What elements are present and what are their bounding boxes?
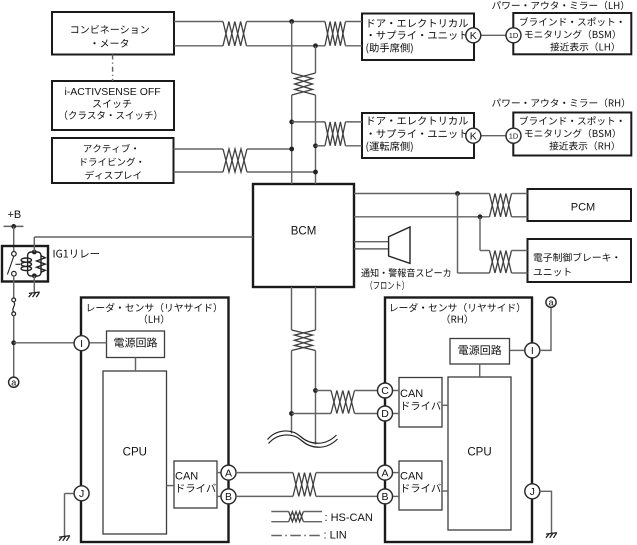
ground radar RH: [546, 533, 557, 538]
label CAN driver RH2: [403, 484, 441, 493]
wire bus left below BCM: [291, 287, 293, 330]
wire bus right below BCM: [315, 287, 317, 330]
node a right: [546, 297, 556, 307]
label power outer mirror RH: [492, 98, 624, 107]
power circuit box LH: [107, 331, 165, 358]
svg-text:D: D: [381, 408, 389, 420]
connector 1D BSM RH: [506, 128, 521, 143]
CAN driver box RH lower: [399, 461, 442, 510]
twisted pair combi meter: [223, 22, 247, 46]
wire pair top to junction and door1: [247, 21, 326, 23]
label brake unit line2: [534, 268, 571, 276]
wire J LH left: [65, 493, 74, 495]
wire speaker bottom: [354, 248, 389, 250]
wire A pair right: [316, 472, 378, 474]
label combination meter line2: [93, 39, 128, 48]
junction PCM bottom branch: [478, 214, 483, 219]
wire relay coil to BCM vertical: [33, 237, 35, 252]
wire CAN driver to B LH: [217, 495, 221, 497]
unit: radar sensor rear RH: [385, 298, 532, 543]
label door unit1 line2: [370, 30, 467, 39]
label CAN driver LH: [178, 484, 216, 493]
wire B to CAN driver RH: [392, 495, 399, 497]
connector K door unit1: [466, 28, 481, 43]
wire J RH to ground: [539, 491, 551, 533]
svg-text:CPU: CPU: [123, 447, 147, 459]
label power circuit RH: [459, 345, 502, 355]
wire bus left to break: [291, 351, 293, 434]
connector A RH: [378, 465, 393, 480]
label active driving display line3: [85, 171, 140, 180]
twisted pair to door unit1: [325, 22, 346, 46]
label door unit2 line2: [370, 129, 467, 138]
junction C branch: [313, 388, 318, 393]
wire K to 1D (RH): [481, 135, 507, 137]
label active driving display line1: [84, 144, 136, 153]
label i-ACTIVSENSE line3: [65, 110, 156, 119]
svg-text:CPU: CPU: [467, 447, 491, 459]
svg-text:a: a: [11, 377, 16, 387]
wire +B down to relay: [13, 226, 15, 251]
connector J LH: [74, 486, 89, 501]
junction door2 bottom: [313, 143, 318, 148]
unit: BSM indicator RH: [513, 113, 631, 156]
connector B LH: [221, 489, 236, 504]
unit: i-ACTIVSENSE OFF switch: [52, 81, 174, 130]
wire to C lead: [355, 390, 378, 392]
wire vertical bus right upper: [315, 46, 317, 73]
wire J LH down: [64, 494, 66, 537]
wire to door2 top lead: [346, 121, 363, 123]
wire brake bottom lead: [512, 272, 528, 274]
svg-text:PCM: PCM: [571, 201, 595, 213]
wire power circuit to CPU LH: [135, 358, 137, 372]
twisted pair vertical lower: [292, 330, 316, 351]
ground radar LH: [59, 536, 70, 541]
connector J RH: [525, 484, 540, 499]
relay switch link dash: [16, 263, 21, 265]
wire I to power circuit: [88, 342, 106, 344]
wire relay coil to ground: [33, 276, 35, 293]
label radar LH line1: [88, 303, 216, 312]
wire down to node a: [13, 316, 15, 378]
wire B pair right: [316, 495, 378, 497]
wire brake bottom lead-in: [458, 272, 490, 274]
CAN driver box RH upper: [399, 378, 442, 428]
twisted pair brake unit: [490, 251, 512, 274]
wire display top to junction: [247, 148, 292, 150]
wire +B bus bar: [4, 225, 24, 227]
wire vertical bus left to BCM: [291, 95, 293, 184]
label BSM RH line3: [549, 141, 613, 150]
junction PCM top branch: [455, 191, 460, 196]
label door unit1 line3: [366, 43, 412, 54]
wire pair bottom to junction and door1: [247, 45, 326, 47]
wire to door2 bottom lead: [346, 145, 363, 147]
label BSM RH line2: [525, 129, 615, 138]
connector I LH: [74, 336, 89, 351]
relay coil outline: [28, 252, 41, 276]
unit: electric brake control unit: [528, 239, 632, 282]
junction IG feed: [11, 340, 16, 345]
junction relay coil top: [32, 250, 37, 255]
label BSM RH line1: [520, 116, 622, 125]
wire B pair left: [236, 495, 293, 497]
label BSM LH line1: [520, 17, 622, 26]
wire combi pair top lead: [174, 21, 223, 23]
svg-text:A: A: [225, 467, 232, 479]
twisted pair PCM: [490, 194, 512, 217]
node a left: [9, 377, 19, 387]
svg-text:a: a: [548, 297, 553, 307]
wire to door1 bottom: [346, 45, 363, 47]
ground relay: [29, 292, 40, 297]
label door unit2 line1: [369, 116, 468, 125]
svg-text:C: C: [381, 385, 389, 397]
relay resistor zigzag: [37, 256, 46, 272]
svg-text:1D: 1D: [509, 131, 519, 140]
junction display bottom: [313, 170, 318, 175]
svg-text:K: K: [470, 130, 477, 142]
label speaker line2: [371, 281, 404, 290]
unit: door electrical supply unit (passenger): [362, 14, 474, 61]
wire CAN driver to A LH: [217, 472, 221, 474]
label combination meter line1: [71, 25, 149, 34]
wire brake top lead-in: [480, 250, 490, 252]
svg-text:A: A: [381, 467, 388, 479]
wire BCM to PCM bottom: [354, 216, 490, 218]
connector I RH: [525, 343, 540, 358]
label radar LH line2: [145, 314, 163, 323]
twisted pair vertical upper: [292, 73, 316, 95]
svg-text:B: B: [381, 491, 388, 503]
wire vertical bus right to BCM: [315, 95, 317, 184]
label power circuit LH: [114, 337, 157, 347]
junction D branch: [289, 411, 294, 416]
wire branch down 1: [457, 194, 459, 274]
wire power circuit to CPU RH: [479, 364, 481, 377]
wire PCM top lead: [512, 193, 528, 195]
wire to door2 top: [292, 121, 325, 123]
connector C RH: [378, 383, 393, 398]
relay IG1 box: [2, 246, 48, 282]
wire speaker top: [354, 241, 389, 243]
unit: active driving display: [52, 138, 174, 183]
connector B RH: [378, 489, 393, 504]
svg-text:B: B: [225, 491, 232, 503]
wire to C: [316, 390, 332, 392]
svg-text:CAN: CAN: [400, 388, 423, 400]
connector 1D BSM LH: [506, 28, 521, 43]
label speaker line1: [361, 268, 450, 277]
connector K door unit2: [466, 128, 481, 143]
label door unit2 line3: [366, 141, 412, 152]
wire CAN driver1 to CPU RH: [442, 404, 448, 406]
junction door2 top: [289, 120, 294, 125]
wire display pair top lead: [174, 148, 224, 150]
inline connector circles: [12, 298, 16, 316]
svg-text:J: J: [530, 486, 535, 498]
wire LIN combination meter to switch: [112, 55, 114, 82]
wire CAN driver2 to CPU RH: [442, 490, 448, 492]
CAN driver box LH: [174, 461, 217, 508]
wire C to CAN driver: [392, 390, 399, 392]
svg-text:I: I: [80, 338, 83, 350]
CPU box RH: [448, 377, 511, 530]
inline connector link: [13, 302, 15, 312]
speaker (notification/alarm): [389, 227, 410, 263]
wire to door2 bottom: [316, 145, 326, 147]
svg-text:I: I: [531, 345, 534, 357]
svg-text:BCM: BCM: [291, 226, 317, 238]
unit: radar sensor rear LH: [81, 298, 229, 543]
wire relay coil to BCM horizontal: [34, 236, 253, 238]
label brake unit line1: [534, 253, 618, 262]
junction top-left: [289, 19, 294, 24]
wire to D lead: [355, 413, 378, 415]
svg-text:i-ACTIVSENSE OFF: i-ACTIVSENSE OFF: [64, 86, 160, 98]
label i-ACTIVSENSE line2: [93, 99, 131, 108]
label power outer mirror LH: [492, 1, 623, 10]
wire to D: [292, 413, 332, 415]
svg-text:: HS-CAN: : HS-CAN: [325, 512, 373, 524]
junction display top: [289, 147, 294, 152]
wire vertical bus left upper: [291, 22, 293, 74]
relay coil loops: [21, 258, 31, 271]
label BSM LH line3: [550, 42, 614, 51]
wire display pair bottom lead: [174, 171, 224, 173]
wire combi pair bottom lead: [174, 45, 223, 47]
unit: BSM indicator LH: [513, 13, 631, 54]
svg-text:J: J: [79, 488, 84, 500]
label door unit1 line1: [369, 19, 468, 28]
relay switch contact top: [12, 252, 17, 257]
svg-text:+B: +B: [8, 209, 22, 221]
wire to door1 top: [346, 21, 363, 23]
svg-text:CAN: CAN: [400, 471, 423, 483]
twisted pair A-B: [293, 473, 316, 497]
relay switch blade: [7, 257, 13, 275]
unit: PCM: [528, 189, 632, 221]
wire switch down: [13, 276, 15, 298]
wire BCM to PCM top: [354, 193, 490, 195]
unit: combination meter: [52, 12, 174, 55]
label CAN driver RH1: [403, 401, 441, 410]
svg-text:K: K: [470, 30, 477, 42]
CPU box LH: [103, 371, 167, 534]
wire brake top lead: [512, 250, 528, 252]
wire A pair left: [236, 472, 293, 474]
connector D RH: [378, 406, 393, 421]
twisted pair to door unit2: [325, 122, 346, 146]
unit: door electrical supply unit (driver): [362, 113, 474, 158]
label radar RH line1: [391, 303, 519, 312]
wire D to CAN driver: [392, 413, 399, 415]
wire K to 1D (LH): [481, 34, 507, 36]
junction top-right: [313, 43, 318, 48]
wire power circuit to I RH: [510, 349, 525, 351]
twisted pair C-D: [331, 391, 355, 414]
label radar RH line2: [448, 314, 467, 323]
junction relay coil bottom: [32, 273, 37, 278]
legend LIN symbol: [271, 535, 322, 537]
wire to radar LH connector I: [14, 342, 74, 344]
relay switch contact bottom: [12, 271, 17, 276]
wire CPU to CAN driver LH: [167, 485, 175, 487]
label active driving display line2: [81, 157, 141, 166]
junction +B: [11, 224, 16, 229]
label IG1 relay: [54, 250, 99, 258]
wire bus right to break: [315, 351, 317, 445]
connector A LH: [221, 465, 236, 480]
wire I RH to node a: [539, 307, 551, 350]
unit: BCM: [253, 184, 354, 287]
svg-text:CAN: CAN: [175, 471, 198, 483]
wire display bottom to junction: [247, 171, 316, 173]
wire branch down 2: [479, 217, 481, 251]
label BSM LH line2: [525, 30, 615, 39]
power circuit box RH: [450, 339, 510, 365]
svg-text:: LIN: : LIN: [324, 530, 347, 542]
legend HS-CAN symbol: [271, 512, 322, 522]
wire A to CAN driver RH: [392, 472, 399, 474]
svg-text:1D: 1D: [509, 31, 519, 40]
twisted pair active display: [223, 149, 247, 172]
wire PCM bottom lead: [512, 216, 528, 218]
wire break wave: [268, 431, 338, 447]
